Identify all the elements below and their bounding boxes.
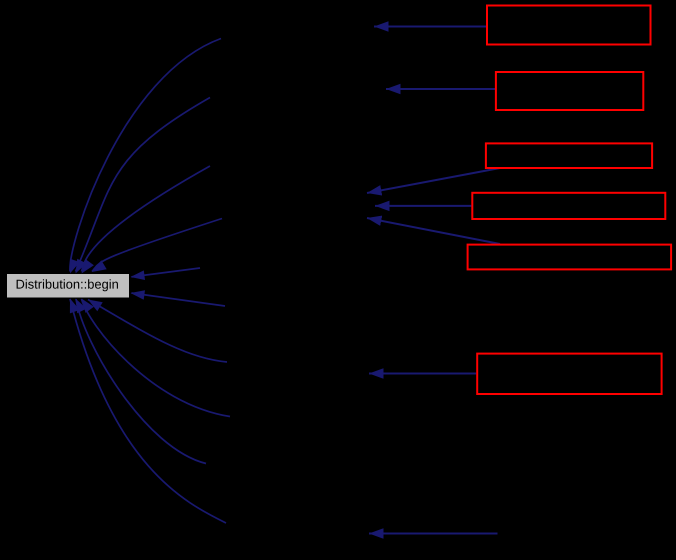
wire: edge curve C8 (70, 299, 226, 523)
red caller box 1 (487, 6, 651, 45)
wire: edge curve C7 (76, 299, 206, 464)
node Distribution::begin (7, 274, 129, 298)
wire: arrow A7 bottom (369, 533, 498, 535)
arrowhead H2 for C2 (76, 259, 87, 274)
arrowhead H4 for C4 (92, 260, 107, 272)
red caller box 5 (468, 245, 671, 270)
arrowhead H6 for C7 (76, 299, 87, 314)
wire: straight edge M1 into node right side (132, 268, 201, 277)
wire: edge curve C5 into node bottom (88, 300, 227, 363)
red caller box 6 (477, 354, 661, 394)
arrowhead H1 for C1 (70, 259, 80, 274)
wire: edge curve C6 (82, 299, 231, 417)
wire: arrow A5 from red box 5 (367, 218, 500, 244)
wire: arrow A6 from red box 6 (369, 373, 476, 375)
wire: arrow A1 from red box 1 (374, 26, 486, 28)
red caller box 3 (486, 143, 652, 168)
wire: edge curve C1 from hidden caller node into node top (70, 39, 221, 272)
wire: edge curve C4 (92, 219, 222, 272)
wire: edge curve C3 (82, 166, 211, 272)
arrowhead H5 for C8 (70, 299, 80, 314)
red caller box 4 (472, 193, 665, 219)
arrowhead H9 for M1 (131, 270, 146, 280)
arrowhead H7 for C6 (82, 299, 94, 313)
wire: edge curve C2 (76, 98, 211, 272)
arrowhead H3 for C3 (82, 259, 94, 273)
wire: arrow A3 from red box 3 (367, 168, 500, 193)
arrowhead H8 for C5 (88, 300, 103, 312)
wire: arrow A4 from red box 4 (375, 205, 471, 207)
wire: straight edge M2 into node right side (132, 293, 226, 306)
arrowhead H10 for M2 (131, 290, 146, 300)
red caller box 2 (496, 72, 643, 110)
wire: arrow A2 from red box 2 (386, 88, 495, 90)
